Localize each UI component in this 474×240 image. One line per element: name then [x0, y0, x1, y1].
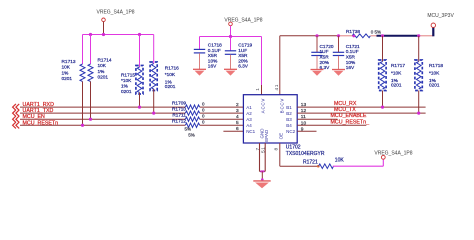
svg-text:OE: OE	[278, 133, 283, 140]
svg-text:R1709: R1709	[172, 101, 186, 107]
wire MCU_EN (row 3)	[20, 118, 185, 120]
svg-text:20%: 20%	[238, 58, 248, 64]
svg-text:B3: B3	[286, 117, 292, 122]
svg-text:10K: 10K	[335, 157, 345, 163]
svg-text:C1720: C1720	[320, 44, 334, 50]
svg-text:16V: 16V	[346, 65, 355, 71]
svg-text:10%: 10%	[346, 60, 356, 66]
svg-text:B4: B4	[286, 123, 292, 128]
resistor R1712 0 ohm	[185, 123, 199, 127]
wire MCU_RESETn (row 4)	[20, 124, 185, 126]
svg-text:12: 12	[301, 108, 307, 114]
svg-text:1: 1	[274, 84, 280, 87]
power bus MCU_3P3V (thick navy)	[377, 35, 420, 37]
resistor R1709 0 ohm	[185, 105, 199, 109]
svg-text:3: 3	[236, 108, 239, 114]
resistor R1716 (DNI)	[153, 35, 155, 64]
junction	[381, 34, 384, 37]
wire R1721 to VREG flag	[333, 165, 384, 167]
ground	[332, 69, 345, 71]
resistor R1717 (DNI)	[380, 62, 385, 90]
wire cap top lead	[230, 37, 232, 51]
svg-text:*10K: *10K	[165, 72, 176, 78]
svg-text:6.3V: 6.3V	[320, 65, 331, 71]
port arrow UART1_RXD	[13, 104, 20, 110]
wire	[382, 36, 384, 62]
pin name VCCA (rotated)	[261, 99, 266, 114]
svg-text:U1702: U1702	[286, 145, 301, 151]
svg-text:0201: 0201	[391, 82, 402, 88]
svg-text:16V: 16V	[208, 64, 217, 70]
junction bar	[260, 170, 266, 172]
wire MCU_TX (pin 12)	[297, 112, 425, 114]
svg-text:0.1UF: 0.1UF	[208, 48, 221, 54]
svg-text:1%: 1%	[98, 69, 106, 75]
svg-text:NC1: NC1	[246, 129, 255, 134]
svg-text:5%: 5%	[185, 127, 192, 132]
power bus VREG_S4A_1P8 (middle)	[200, 36, 262, 38]
wire UART1_RXD (row 1)	[20, 106, 185, 108]
junction	[315, 34, 318, 37]
svg-text:7: 7	[255, 148, 261, 151]
svg-text:20%: 20%	[320, 60, 330, 66]
svg-text:MCU_RESETn_: MCU_RESETn_	[331, 119, 370, 125]
svg-text:0201: 0201	[429, 82, 440, 88]
port arrow MCU_RESETn	[13, 122, 20, 128]
pin number 14 (rotated)	[274, 84, 280, 90]
wire cap top lead	[338, 36, 340, 52]
svg-text:R1710: R1710	[172, 107, 186, 113]
IC U1702 TXS0104ERGYR box	[243, 95, 297, 143]
svg-text:MCU_RESETn: MCU_RESETn	[23, 120, 59, 126]
svg-text:R1712: R1712	[172, 119, 186, 125]
port arrow UART1_TXD	[13, 110, 20, 116]
svg-text:10: 10	[301, 120, 307, 126]
junction	[417, 34, 420, 37]
pin number 1 (rotated)	[255, 88, 261, 91]
svg-text:0201: 0201	[98, 75, 109, 81]
svg-text:6.3V: 6.3V	[238, 64, 249, 70]
ground	[311, 69, 324, 71]
svg-text:0 5%: 0 5%	[371, 30, 381, 35]
svg-text:A: A	[261, 110, 266, 113]
svg-text:X5R: X5R	[208, 53, 218, 59]
svg-text:R1716: R1716	[165, 66, 179, 72]
svg-text:B: B	[280, 110, 285, 113]
wire GND pin 7	[259, 143, 261, 171]
svg-text:0201: 0201	[121, 89, 132, 95]
wire cap top lead	[316, 36, 318, 52]
svg-text:A3: A3	[246, 117, 252, 122]
svg-text:1%: 1%	[121, 84, 129, 90]
svg-text:B1: B1	[286, 105, 292, 110]
power flag MCU_3P3V	[432, 27, 434, 36]
wire	[418, 36, 420, 62]
svg-text:5: 5	[236, 120, 239, 126]
svg-text:X5R: X5R	[238, 53, 248, 59]
resistor R1715 (DNI)	[138, 33, 141, 36]
wire NC2 stub (pin 9)	[297, 130, 316, 132]
svg-text:C1719: C1719	[238, 43, 252, 49]
pin number 8 (rotated)	[274, 148, 280, 151]
svg-text:R1718: R1718	[429, 63, 443, 69]
svg-text:0201: 0201	[62, 76, 73, 82]
svg-text:*10K: *10K	[429, 71, 440, 77]
wire cap bottom lead	[199, 53, 201, 69]
junction	[381, 106, 384, 109]
ground	[193, 68, 206, 70]
svg-text:1%: 1%	[62, 70, 70, 76]
svg-text:C1718: C1718	[208, 43, 222, 49]
svg-text:1UF: 1UF	[238, 48, 247, 54]
svg-text:10%: 10%	[208, 58, 218, 64]
svg-text:R1721: R1721	[303, 159, 318, 165]
svg-text:R1717: R1717	[391, 63, 405, 69]
svg-text:X5R: X5R	[346, 55, 356, 61]
svg-text:NC2: NC2	[286, 129, 295, 134]
capacitor C1718 0.1UF	[194, 48, 205, 50]
power flag VREG_S4A_1P8 (middle)	[229, 22, 233, 26]
svg-text:VREG_S4A_1P8: VREG_S4A_1P8	[97, 9, 135, 15]
svg-text:13: 13	[301, 102, 307, 108]
pin number 15 (rotated)	[260, 147, 266, 153]
capacitor C1720 1UF	[311, 51, 322, 53]
svg-text:R1714: R1714	[98, 58, 112, 64]
svg-text:8: 8	[274, 148, 280, 151]
wire UART1_TXD (row 2)	[20, 112, 185, 114]
wire MCU_RX (pin 13)	[297, 106, 425, 108]
pin name VCCB (rotated)	[280, 99, 285, 114]
wire NC1 stub (pin 6)	[223, 130, 243, 132]
wire OE pin 8	[279, 143, 281, 166]
junction	[417, 112, 420, 115]
svg-text:A1: A1	[246, 105, 252, 110]
resistor R1711 0 ohm	[185, 117, 199, 121]
wire VCCB pin 14	[279, 36, 281, 95]
capacitor C1721 0.1UF	[333, 51, 344, 53]
power flag VREG_S4A_1P8 (bottom)	[381, 155, 385, 159]
junction	[337, 34, 340, 37]
svg-text:TXS0104ERGYR: TXS0104ERGYR	[286, 151, 325, 157]
wire cap bottom lead	[230, 55, 232, 70]
resistor R1714	[89, 33, 92, 36]
svg-text:R1738: R1738	[346, 29, 360, 35]
svg-text:5%: 5%	[188, 133, 195, 138]
power bus VREG_S4A_1P8 (left)	[83, 34, 154, 36]
power flag VREG_S4A_1P8 (left)	[102, 18, 106, 22]
svg-text:C1721: C1721	[346, 44, 360, 50]
R1738 right lead	[371, 35, 377, 37]
wire	[382, 91, 384, 108]
wire to ground	[261, 171, 263, 179]
thin lead to flag corner	[420, 35, 434, 37]
wire cap bottom lead	[316, 56, 318, 70]
resistor R1738 0 ohm	[352, 34, 370, 38]
svg-text:*10K: *10K	[121, 78, 132, 84]
wire	[418, 91, 420, 114]
wire EPAD pin 15	[264, 143, 266, 171]
svg-text:VREG_S4A_1P8: VREG_S4A_1P8	[224, 18, 262, 24]
svg-text:R1711: R1711	[172, 113, 186, 119]
wire MCU_RESETn_ (pin 10)	[297, 124, 366, 126]
capacitor C1719 1UF	[225, 50, 236, 52]
resistor R1718 (DNI)	[416, 62, 421, 90]
svg-text:2: 2	[236, 102, 239, 108]
wire VCCA pin 1	[261, 37, 263, 86]
port arrow MCU_EN	[13, 116, 20, 122]
svg-text:B2: B2	[286, 111, 292, 116]
svg-text:V: V	[261, 99, 266, 102]
resistor R1721 10K	[319, 164, 334, 169]
svg-text:X5R: X5R	[320, 55, 330, 61]
svg-text:4: 4	[274, 87, 280, 90]
svg-text:*10K: *10K	[391, 71, 402, 77]
svg-text:11: 11	[301, 114, 306, 120]
svg-text:A2: A2	[246, 111, 252, 116]
svg-text:4: 4	[236, 114, 239, 120]
svg-text:1: 1	[255, 88, 261, 91]
wire cap bottom lead	[338, 56, 340, 70]
svg-text:V: V	[280, 99, 285, 102]
ground	[224, 68, 237, 70]
svg-text:6: 6	[236, 126, 239, 132]
ground (U1702 GND/EPAD)	[253, 180, 270, 182]
svg-text:10K: 10K	[62, 65, 71, 71]
svg-text:0201: 0201	[165, 84, 176, 90]
svg-text:10K: 10K	[98, 63, 107, 69]
wire cap top lead	[199, 37, 201, 50]
wire MCU_ENABLE (pin 11)	[297, 118, 337, 120]
svg-text:9: 9	[301, 126, 304, 132]
svg-text:1UF: 1UF	[320, 49, 329, 55]
R1738 left lead	[340, 35, 354, 37]
power bus MCU_3P3V (maroon segment)	[280, 35, 340, 37]
svg-text:R1715: R1715	[121, 73, 135, 79]
resistor R1713	[82, 35, 84, 65]
svg-text:EPAD: EPAD	[264, 129, 269, 142]
svg-text:VREG_S4A_1P8: VREG_S4A_1P8	[374, 150, 412, 156]
resistor R1710 0 ohm	[185, 111, 199, 115]
svg-text:A4: A4	[246, 123, 252, 128]
pin number 7 (rotated)	[255, 148, 261, 151]
svg-text:R1713: R1713	[62, 59, 76, 65]
svg-text:MCU_3P3V: MCU_3P3V	[427, 13, 454, 19]
svg-text:0.1UF: 0.1UF	[346, 49, 359, 55]
